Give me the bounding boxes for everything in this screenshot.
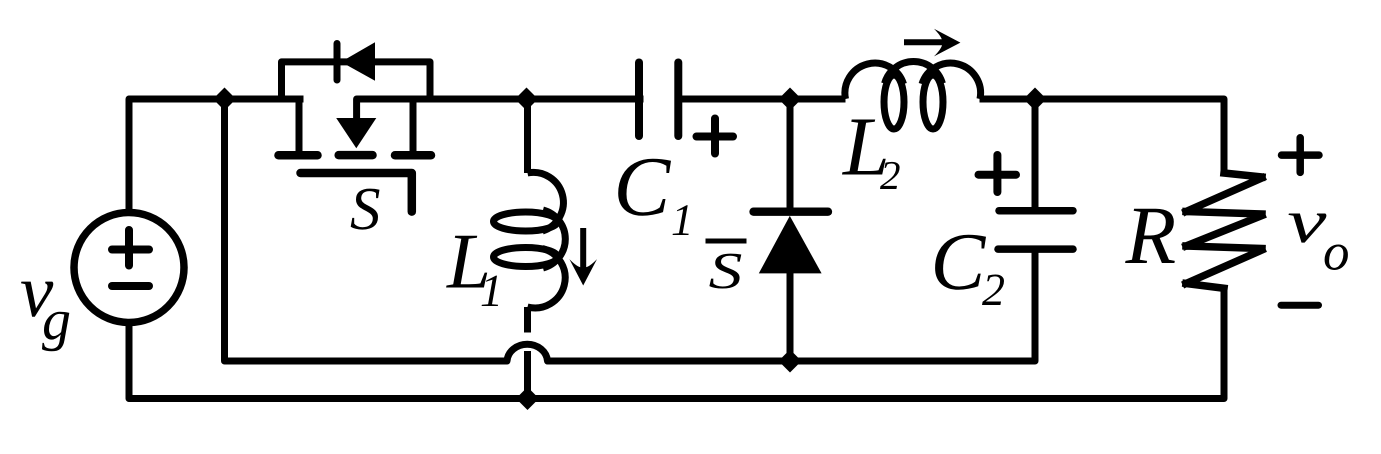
label R [1125, 209, 1175, 263]
MOSFET middle contact bar [339, 151, 373, 160]
capacitor C1 left plate [635, 63, 643, 137]
inductor L1 coil bumps [528, 172, 564, 231]
current arrow at L1 shaft [580, 228, 586, 272]
MOSFET body arrow head [336, 118, 376, 148]
output minus sign [1281, 302, 1319, 309]
capacitor C2 top plate [999, 207, 1073, 215]
body diode triangle [341, 42, 375, 81]
label C2: C [935, 235, 986, 290]
node C junction dot (diode top) [779, 88, 802, 111]
current arrow at L1 head [569, 259, 597, 285]
label vg: v [21, 282, 53, 317]
inductor L2 loop ellipse 2 [923, 75, 943, 129]
wire rail from L2 to R + R top lead [980, 99, 1225, 173]
MOSFET source stub [410, 96, 417, 154]
label L2: subscript 2 [880, 162, 900, 189]
MOSFET source contact bar [395, 151, 431, 160]
wire vg bottom + outer bottom rail + R bottom lead [129, 288, 1224, 399]
wire vg top to rail [129, 99, 304, 213]
wire rail from C1 to L2 [678, 96, 845, 103]
label vo: v [1289, 214, 1327, 243]
label C2: subscript 2 [982, 275, 1004, 306]
resistor R zigzag [1186, 173, 1262, 288]
diode S-bar top lead [787, 96, 794, 213]
capacitor C1 right plate [674, 63, 682, 137]
label L1: L [446, 236, 487, 288]
label C1: C [618, 159, 671, 216]
label vo: o subscript [1325, 245, 1348, 271]
MOSFET drain stub [296, 96, 303, 154]
inductor L2 loop ellipse 1 [884, 75, 904, 129]
label S-bar: S [709, 254, 741, 289]
label C1: subscript 1 [673, 205, 689, 235]
node B junction dot (L1 top) [515, 88, 538, 111]
MOSFET body arrow line [357, 99, 644, 122]
voltage source Vg circle [74, 213, 184, 323]
node A junction dot [213, 88, 236, 111]
label S switch [351, 189, 380, 230]
wire C2 top lead [1032, 96, 1039, 213]
label L2: L [842, 120, 886, 175]
capacitor C2 bottom plate [998, 245, 1073, 253]
Vg minus sign [112, 282, 149, 290]
diode S-bar bottom lead [787, 271, 794, 365]
C2 polarity plus [979, 155, 1017, 192]
inductor L2 coil bumps [845, 63, 904, 99]
body diode loop of switch S [282, 62, 431, 103]
label L1: subscript 1 [482, 276, 499, 306]
C1 polarity plus [697, 119, 734, 154]
wire L1 bottom lead above hop [524, 307, 531, 333]
node E junction dot (C2 top) [1024, 88, 1047, 111]
body diode cathode bar [334, 44, 341, 81]
inductor L1 loop ellipse 2 [494, 248, 558, 267]
Vg plus sign [112, 230, 149, 266]
node G junction dot (L1 bottom on outer rail) [516, 387, 539, 410]
wire L1 bottom lead below hop [524, 351, 531, 402]
diode S-bar cathode bar [754, 208, 829, 216]
output plus sign [1282, 138, 1320, 173]
label vg: g subscript [42, 312, 69, 352]
diode S-bar triangle [759, 216, 822, 274]
MOSFET gate lead [301, 173, 412, 212]
node D junction dot (diode bottom on inner rail) [779, 350, 802, 373]
inductor L1 loop ellipse 1 [494, 212, 558, 231]
MOSFET drain contact bar [279, 151, 318, 160]
current arrow at L2 head [934, 29, 960, 57]
current arrow at L2 shaft [904, 39, 945, 45]
overbar of S-bar label [706, 239, 747, 244]
wire L1 top lead [524, 96, 531, 174]
wire node A down + inner bottom rail with hop + C2 bottom lead [225, 96, 1036, 362]
